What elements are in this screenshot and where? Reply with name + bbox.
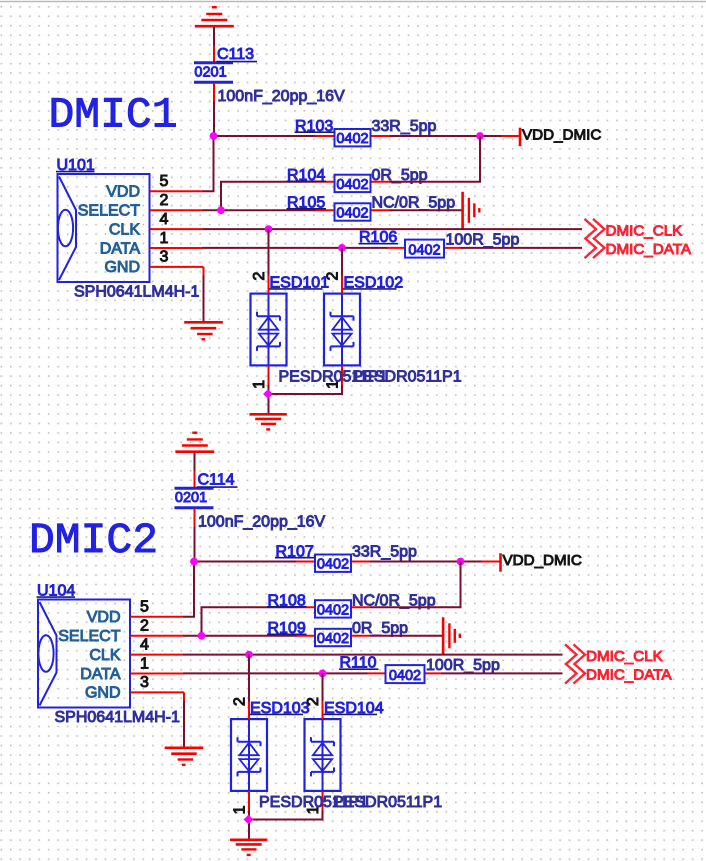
pin name GND of U101 bbox=[104, 259, 140, 276]
svg-text:33R_5pp: 33R_5pp bbox=[352, 544, 417, 561]
value of R108 bbox=[352, 593, 436, 610]
wire DATA riser to ESD104 bbox=[322, 673, 324, 701]
ESD diode ESD104 symbol bbox=[311, 719, 334, 791]
svg-text:100R_5pp: 100R_5pp bbox=[446, 232, 520, 249]
label U101 bbox=[56, 157, 95, 174]
wire node to R107 row bbox=[193, 561, 297, 563]
ESD diode ESD103 symbol bbox=[238, 719, 261, 791]
power symbol VDD_DMIC bbox=[519, 128, 522, 147]
junction on VDD_DMIC rail bbox=[476, 132, 484, 140]
svg-text:3: 3 bbox=[140, 674, 149, 691]
svg-text:VDD: VDD bbox=[87, 609, 121, 626]
part number of U104 bbox=[55, 709, 181, 726]
net label DMIC_CLK bbox=[606, 222, 683, 239]
ESD diode ESD102 body box bbox=[324, 294, 360, 366]
resistor R104 body (0402 box) bbox=[335, 175, 371, 192]
junction DATA at ESD104 bbox=[319, 670, 327, 678]
svg-text:0402: 0402 bbox=[317, 557, 349, 573]
junction ESD ground node bbox=[263, 389, 273, 399]
capacitor C113 bbox=[194, 46, 233, 102]
wire ESD101 to ground node bbox=[268, 385, 270, 414]
footprint 0402 of R103 bbox=[336, 131, 368, 147]
svg-text:0402: 0402 bbox=[336, 177, 368, 193]
wire DATA riser to ESD102 bbox=[341, 248, 343, 276]
svg-text:0201: 0201 bbox=[194, 65, 226, 81]
pin number 5 of U101 bbox=[160, 173, 169, 190]
footprint 0402 of R105 bbox=[336, 206, 368, 222]
svg-text:VDD: VDD bbox=[106, 184, 140, 201]
svg-text:DMIC_DATA: DMIC_DATA bbox=[586, 667, 672, 684]
resistor R103 pin stubs bbox=[316, 135, 390, 137]
resistor R106 body (0402 box) bbox=[405, 240, 444, 258]
label R109 bbox=[267, 620, 307, 637]
wire R109 to ground bbox=[370, 635, 442, 637]
pin stub at VDD_DMIC bbox=[482, 561, 500, 563]
label R107 bbox=[275, 543, 315, 560]
label R110 bbox=[339, 655, 379, 672]
pin number 4 of U104 bbox=[140, 636, 149, 653]
junction on VDD_DMIC rail bbox=[457, 558, 465, 566]
svg-text:2: 2 bbox=[140, 618, 149, 635]
junction node at cap bbox=[190, 558, 198, 566]
value of R109 bbox=[352, 620, 408, 637]
wire SELECT to R109 bbox=[183, 635, 297, 637]
pin number 1 of U104 bbox=[140, 655, 149, 672]
wire R108 riser to VDD rail bbox=[370, 562, 461, 608]
pin stub VDD (5) bbox=[131, 616, 184, 618]
svg-text:3: 3 bbox=[160, 249, 169, 266]
wire R107 to VDD_DMIC bbox=[370, 561, 482, 563]
svg-text:4: 4 bbox=[140, 636, 149, 653]
junction DATA at ESD102 bbox=[338, 244, 346, 252]
part number of ESD102 bbox=[353, 369, 462, 386]
svg-text:1: 1 bbox=[232, 805, 249, 814]
pin number 1 of ESD102 bbox=[325, 380, 342, 389]
resistor R108 body (0402 box) bbox=[315, 600, 351, 617]
value of R110 bbox=[426, 657, 500, 674]
svg-text:VDD_DMIC: VDD_DMIC bbox=[522, 127, 601, 144]
footprint 0402 of R109 bbox=[317, 631, 349, 647]
part number of ESD104 bbox=[333, 794, 442, 811]
svg-text:C113: C113 bbox=[217, 46, 254, 63]
svg-text:5: 5 bbox=[160, 173, 169, 190]
svg-text:100nF_20pp_16V: 100nF_20pp_16V bbox=[198, 513, 326, 530]
pin 2 stub of ESD104 bbox=[322, 701, 324, 719]
wire CLK net bbox=[183, 654, 563, 656]
wire DATA net left bbox=[183, 672, 368, 674]
svg-text:DATA: DATA bbox=[100, 240, 141, 257]
label ESD101 bbox=[269, 274, 329, 291]
footprint 0402 of R104 bbox=[336, 177, 368, 193]
ground (rotated) at R109 bbox=[443, 617, 460, 654]
label ESD102 bbox=[343, 274, 403, 291]
label U104 bbox=[37, 582, 76, 599]
wire DATA net right bbox=[461, 247, 583, 249]
wire R104 riser to VDD rail bbox=[390, 136, 481, 182]
pin stub SELECT (2) bbox=[131, 635, 184, 637]
resistor R108 pin stubs bbox=[296, 606, 370, 608]
pin stub DATA (1) bbox=[150, 247, 203, 249]
footprint 0201 of C114 bbox=[175, 490, 207, 506]
pin number 2 of ESD102 bbox=[325, 272, 342, 281]
pin number 1 of U101 bbox=[160, 230, 169, 247]
pin stub SELECT (2) bbox=[150, 209, 203, 211]
svg-text:100nF_20pp_16V: 100nF_20pp_16V bbox=[218, 88, 346, 105]
wire GND pin down bbox=[183, 692, 185, 746]
svg-text:DMIC_CLK: DMIC_CLK bbox=[606, 222, 683, 239]
pin stub DATA (1) bbox=[131, 673, 184, 675]
value of R104 bbox=[372, 167, 428, 184]
resistor R104 pin stubs bbox=[316, 181, 390, 183]
svg-text:SELECT: SELECT bbox=[58, 628, 120, 645]
svg-text:0402: 0402 bbox=[336, 206, 368, 222]
ESD diode ESD101 symbol bbox=[257, 294, 280, 366]
wire C113 to node bbox=[213, 102, 215, 138]
svg-text:0201: 0201 bbox=[175, 490, 207, 506]
pin number 2 of U101 bbox=[160, 192, 169, 209]
pin number 3 of U104 bbox=[140, 674, 149, 691]
resistor R106 pin stubs bbox=[387, 247, 461, 249]
value of C114 bbox=[198, 513, 326, 530]
footprint 0402 of R106 bbox=[408, 242, 440, 258]
off-page connector DMIC_DATA bbox=[585, 238, 605, 258]
junction CLK at ESD101 bbox=[265, 225, 273, 233]
mic U101 symbol bbox=[58, 177, 76, 281]
pin name CLK of U104 bbox=[89, 647, 120, 664]
svg-text:1: 1 bbox=[251, 380, 268, 389]
pin number 3 of U101 bbox=[160, 249, 169, 266]
pin number 1 of ESD104 bbox=[305, 805, 322, 814]
svg-text:PESDR0511P1: PESDR0511P1 bbox=[353, 369, 462, 386]
pin number 2 of ESD104 bbox=[305, 697, 322, 706]
value of R103 bbox=[372, 118, 437, 135]
junction CLK at ESD103 bbox=[245, 651, 253, 659]
svg-text:100R_5pp: 100R_5pp bbox=[426, 657, 500, 674]
junction at SELECT bbox=[198, 632, 206, 640]
value of C113 bbox=[218, 88, 346, 105]
svg-text:SPH0641LM4H-1: SPH0641LM4H-1 bbox=[55, 709, 181, 726]
ground (top, flipped) for C114 bbox=[175, 433, 214, 452]
pin name DATA of U104 bbox=[80, 666, 121, 683]
svg-text:NC/0R_5pp: NC/0R_5pp bbox=[372, 195, 456, 212]
resistor R103 body (0402 box) bbox=[335, 129, 371, 146]
wire SELECT to R105 bbox=[203, 209, 317, 211]
label C114 bbox=[197, 471, 238, 488]
junction node at cap bbox=[210, 132, 218, 140]
pin 2 stub of ESD102 bbox=[341, 276, 343, 294]
wire CLK net bbox=[203, 228, 583, 230]
svg-text:2: 2 bbox=[232, 697, 249, 706]
svg-text:0402: 0402 bbox=[408, 242, 440, 258]
ESD diode ESD101 body box bbox=[251, 294, 287, 366]
pin stub VDD (5) bbox=[150, 190, 203, 192]
wire GND pin down bbox=[203, 267, 205, 321]
footprint 0201 of C113 bbox=[194, 65, 226, 81]
ground below ESD diodes bbox=[250, 414, 287, 429]
wire R105 to ground bbox=[390, 209, 462, 211]
pin name GND of U104 bbox=[85, 685, 121, 702]
resistor R105 body (0402 box) bbox=[335, 203, 371, 220]
part number of ESD101 bbox=[279, 369, 388, 386]
wire CLK riser to ESD103 bbox=[248, 655, 250, 701]
net label DMIC_CLK bbox=[586, 648, 663, 665]
net label DMIC_DATA bbox=[586, 667, 672, 684]
ESD diode ESD104 body box bbox=[305, 719, 341, 791]
wire SELECT riser to R104 bbox=[221, 182, 317, 210]
label ESD104 bbox=[324, 700, 384, 717]
svg-text:DMIC_CLK: DMIC_CLK bbox=[586, 648, 663, 665]
resistor R110 body (0402 box) bbox=[386, 665, 425, 683]
pin name VDD of U101 bbox=[106, 184, 140, 201]
ESD diode ESD103 body box bbox=[231, 719, 267, 791]
pin 2 stub of ESD101 bbox=[268, 276, 270, 294]
svg-text:2: 2 bbox=[160, 192, 169, 209]
net label VDD_DMIC bbox=[522, 127, 601, 144]
svg-text:5: 5 bbox=[140, 599, 149, 616]
wire DATA net right bbox=[441, 672, 563, 674]
pin stub GND (3) bbox=[150, 266, 204, 268]
svg-text:0402: 0402 bbox=[336, 131, 368, 147]
pin name SELECT of U104 bbox=[58, 628, 120, 645]
wire SELECT riser to R108 bbox=[202, 607, 298, 635]
mic U104 body bbox=[38, 600, 130, 708]
pin stub CLK (4) bbox=[131, 654, 184, 656]
power symbol VDD_DMIC bbox=[499, 553, 502, 572]
svg-text:1: 1 bbox=[140, 655, 149, 672]
svg-text:VDD_DMIC: VDD_DMIC bbox=[503, 552, 582, 569]
resistor R110 pin stubs bbox=[368, 672, 442, 674]
footprint 0402 of R110 bbox=[389, 668, 421, 684]
ESD diode ESD102 symbol bbox=[331, 294, 354, 366]
pin number 1 of ESD103 bbox=[232, 805, 249, 814]
label R104 bbox=[287, 167, 327, 184]
footprint 0402 of R108 bbox=[317, 602, 349, 618]
pin 2 stub of ESD103 bbox=[248, 701, 250, 719]
pin name DATA of U101 bbox=[100, 240, 141, 257]
svg-text:GND: GND bbox=[104, 259, 140, 276]
pin 1 stub of ESD103 bbox=[248, 791, 250, 811]
off-page connector DMIC_DATA bbox=[565, 663, 585, 683]
ground below ESD diodes bbox=[230, 840, 267, 855]
part number of U101 bbox=[74, 284, 200, 301]
net label VDD_DMIC bbox=[503, 552, 582, 569]
wire node down to VDD pin bbox=[203, 136, 214, 191]
pin name VDD of U104 bbox=[87, 609, 121, 626]
wire node to R103 row bbox=[213, 135, 317, 137]
label R108 bbox=[267, 592, 307, 609]
pin number 2 of U104 bbox=[140, 618, 149, 635]
mic U104 symbol bbox=[38, 602, 56, 706]
svg-text:CLK: CLK bbox=[109, 221, 140, 238]
svg-text:DMIC2: DMIC2 bbox=[29, 516, 158, 565]
pin number 4 of U101 bbox=[160, 211, 169, 228]
pin number 2 of ESD103 bbox=[232, 697, 249, 706]
svg-text:DATA: DATA bbox=[80, 666, 121, 683]
pin 1 stub of ESD104 bbox=[322, 791, 324, 811]
junction ESD ground node bbox=[244, 815, 254, 825]
wire ESD103 to ground node bbox=[248, 811, 250, 840]
title DMIC1 bbox=[49, 91, 178, 140]
svg-text:C114: C114 bbox=[198, 471, 235, 488]
value of R107 bbox=[352, 544, 417, 561]
capacitor C114 bbox=[175, 471, 214, 527]
svg-text:1: 1 bbox=[160, 230, 169, 247]
pin name CLK of U101 bbox=[109, 221, 140, 238]
off-page connector DMIC_CLK bbox=[565, 644, 585, 664]
svg-text:CLK: CLK bbox=[89, 647, 120, 664]
svg-text:SPH0641LM4H-1: SPH0641LM4H-1 bbox=[74, 284, 200, 301]
svg-text:PESDR0511P1: PESDR0511P1 bbox=[333, 794, 442, 811]
title DMIC2 bbox=[29, 516, 158, 565]
mic U101 body bbox=[58, 174, 150, 282]
wire C114 to node bbox=[194, 527, 196, 563]
resistor R105 pin stubs bbox=[316, 209, 390, 211]
wire ESD104 to ground node bbox=[249, 811, 323, 820]
resistor R107 pin stubs bbox=[296, 561, 370, 563]
pin stub GND (3) bbox=[131, 691, 185, 693]
wire CLK riser to ESD101 bbox=[268, 229, 270, 275]
svg-text:0402: 0402 bbox=[317, 631, 349, 647]
svg-text:0R_5pp: 0R_5pp bbox=[352, 620, 408, 637]
wire ground to C114 bbox=[194, 453, 196, 471]
junction at SELECT bbox=[217, 206, 225, 214]
pin number 5 of U104 bbox=[140, 599, 149, 616]
wire DATA net left bbox=[203, 247, 388, 249]
pin stub CLK (4) bbox=[150, 228, 203, 230]
pin 1 stub of ESD102 bbox=[341, 365, 343, 385]
label ESD103 bbox=[250, 700, 310, 717]
svg-text:0402: 0402 bbox=[317, 602, 349, 618]
ground (rotated) at R105 bbox=[463, 192, 480, 229]
wire node down to VDD pin bbox=[183, 562, 194, 617]
svg-text:2: 2 bbox=[305, 697, 322, 706]
pin stub at VDD_DMIC bbox=[501, 135, 519, 137]
resistor R107 body (0402 box) bbox=[315, 555, 351, 572]
label R105 bbox=[287, 194, 327, 211]
net label DMIC_DATA bbox=[606, 241, 692, 258]
pin 1 stub of ESD101 bbox=[268, 365, 270, 385]
label R103 bbox=[295, 118, 335, 135]
value of R106 bbox=[446, 232, 520, 249]
svg-text:DMIC1: DMIC1 bbox=[49, 91, 178, 140]
svg-text:0402: 0402 bbox=[389, 668, 421, 684]
ground below U104 bbox=[165, 748, 204, 765]
footprint 0402 of R107 bbox=[317, 557, 349, 573]
pin number 2 of ESD101 bbox=[251, 272, 268, 281]
wire ground to C113 bbox=[213, 27, 215, 45]
pin number 1 of ESD101 bbox=[251, 380, 268, 389]
ground below U101 bbox=[184, 322, 223, 339]
svg-text:4: 4 bbox=[160, 211, 169, 228]
svg-text:2: 2 bbox=[325, 272, 342, 281]
svg-text:33R_5pp: 33R_5pp bbox=[372, 118, 437, 135]
wire R103 to VDD_DMIC bbox=[390, 135, 502, 137]
resistor R109 pin stubs bbox=[296, 635, 370, 637]
off-page connector DMIC_CLK bbox=[585, 219, 605, 239]
svg-text:SELECT: SELECT bbox=[78, 203, 140, 220]
resistor R109 body (0402 box) bbox=[315, 629, 351, 646]
ground (top, flipped) for C113 bbox=[195, 7, 234, 26]
pin name SELECT of U101 bbox=[78, 203, 140, 220]
part number of ESD103 bbox=[259, 794, 368, 811]
svg-text:2: 2 bbox=[251, 272, 268, 281]
value of R105 bbox=[372, 195, 456, 212]
label C113 bbox=[216, 46, 257, 63]
svg-text:DMIC_DATA: DMIC_DATA bbox=[606, 241, 692, 258]
wire ESD102 to ground node bbox=[269, 385, 343, 394]
label R106 bbox=[359, 229, 399, 246]
svg-text:GND: GND bbox=[85, 685, 121, 702]
